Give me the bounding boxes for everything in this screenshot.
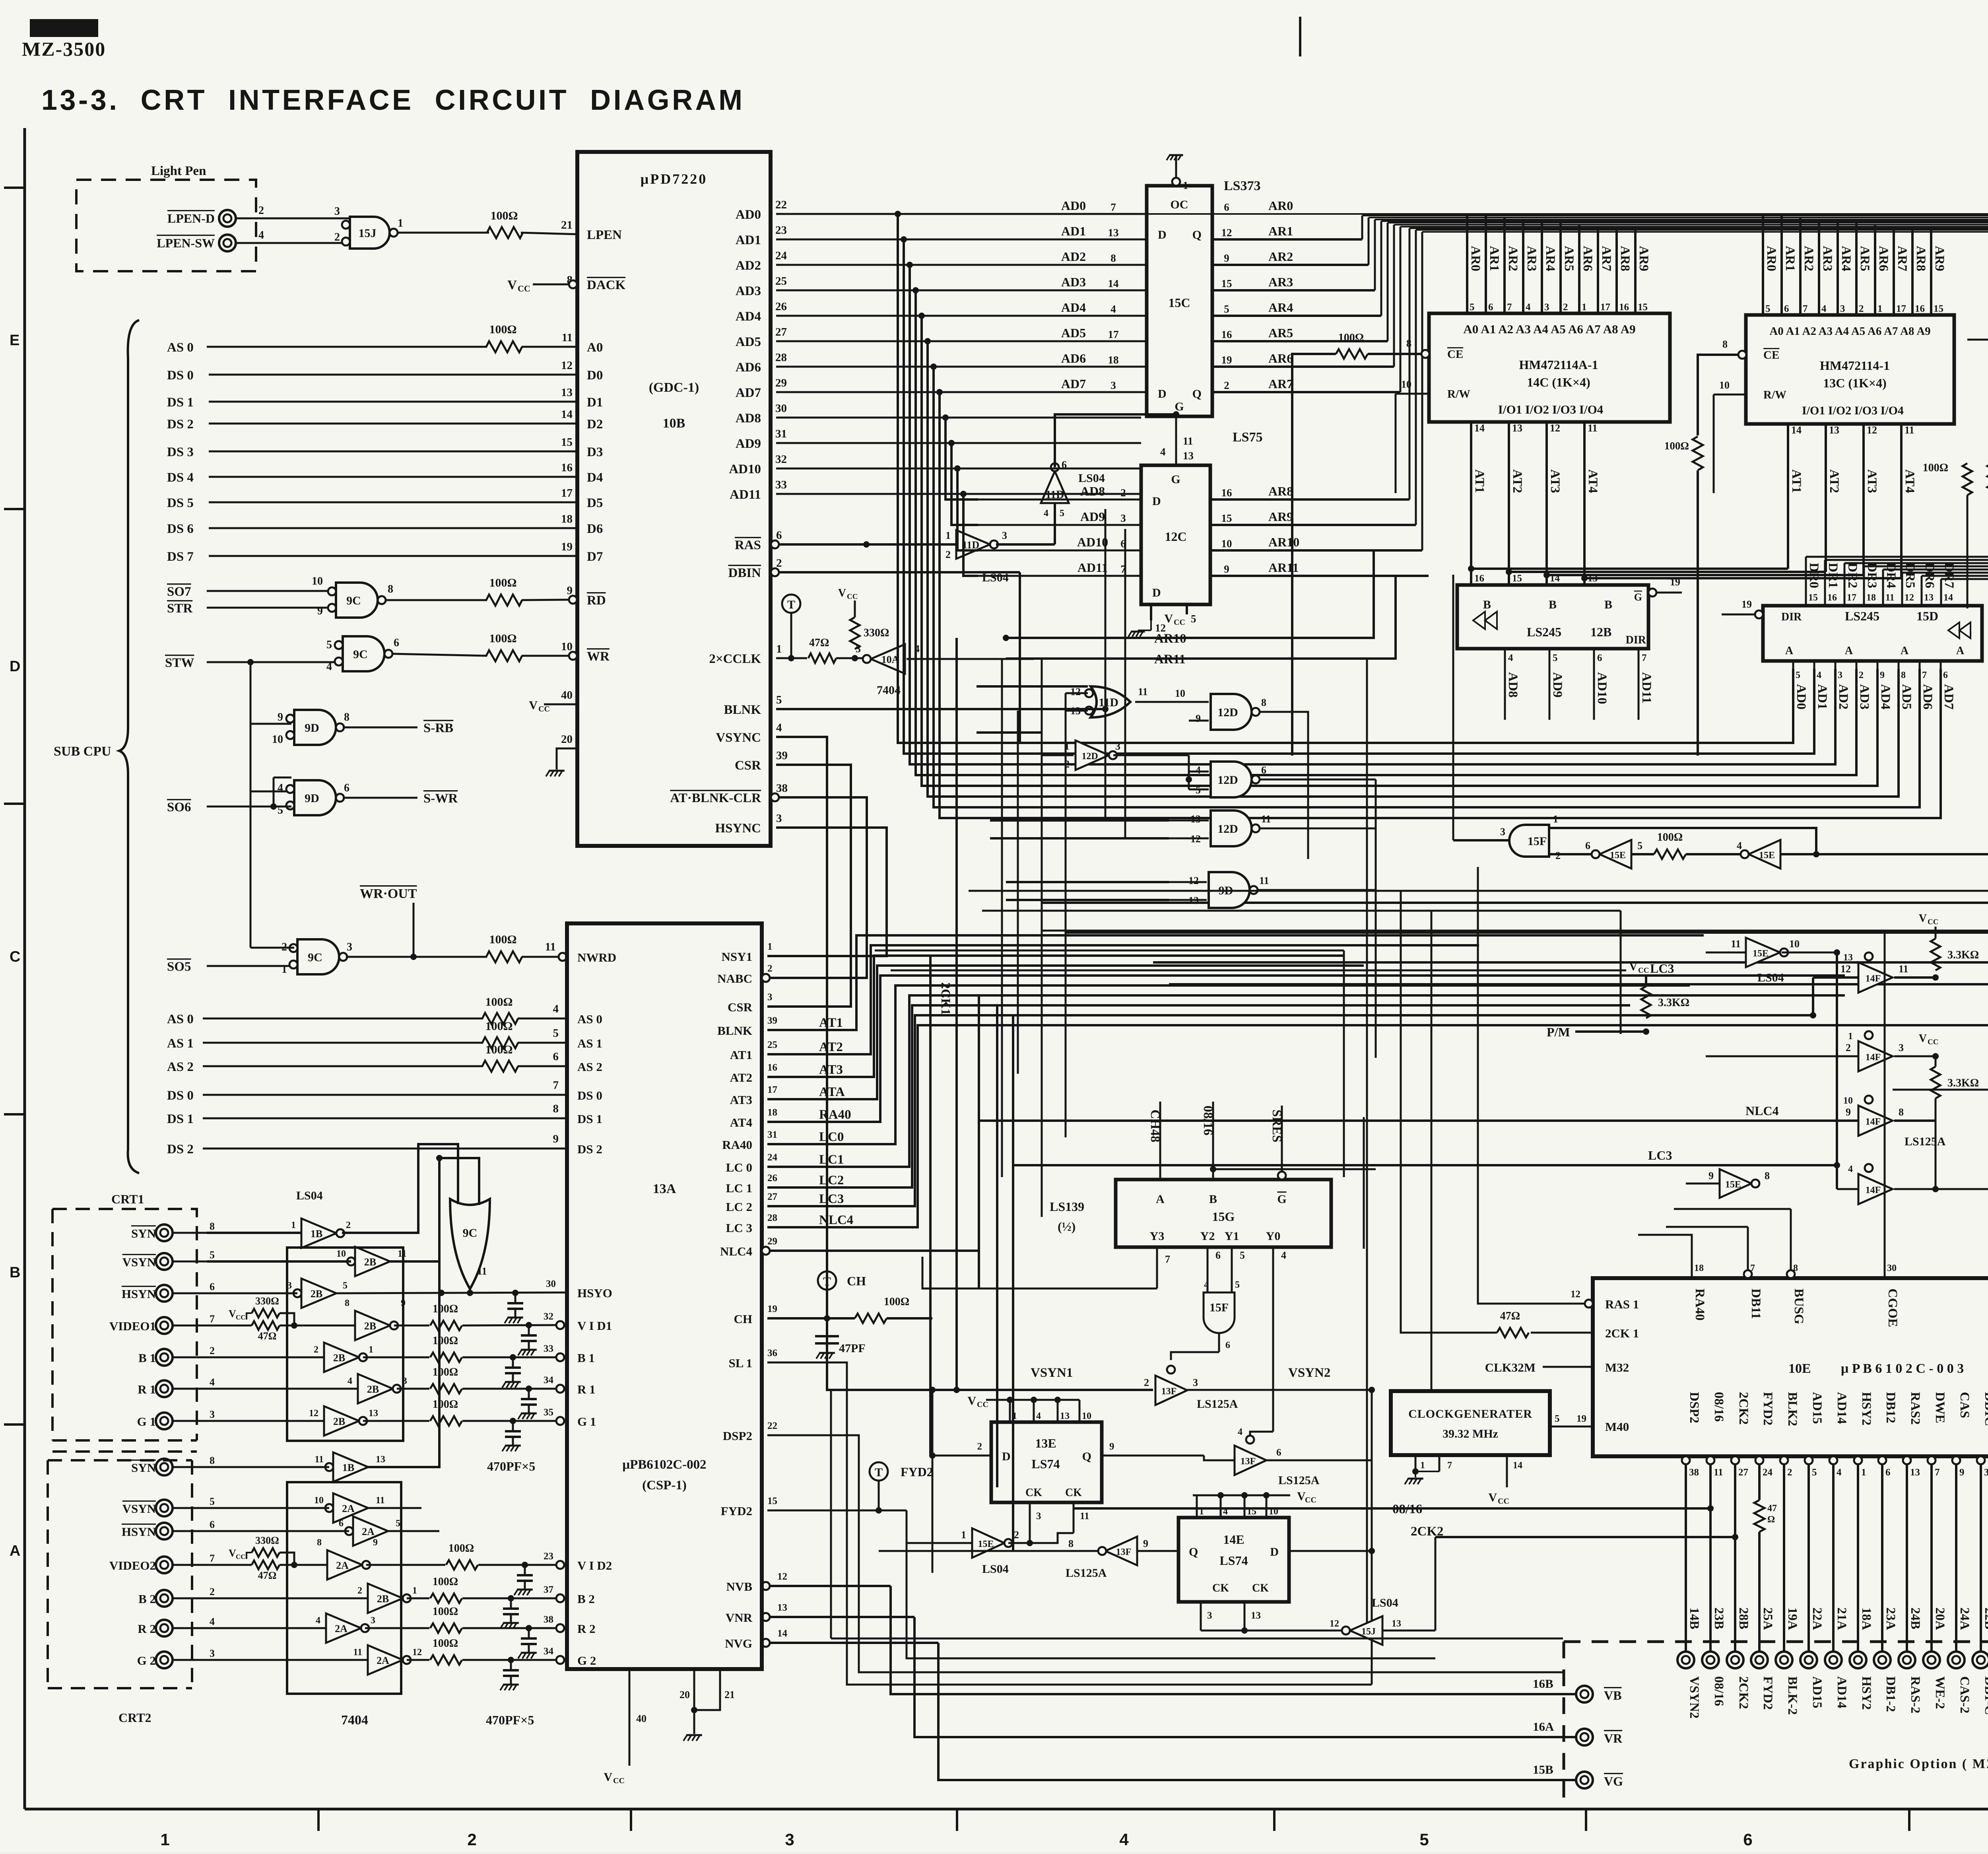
wire CSR to CSR xyxy=(767,765,851,1007)
svg-text:6: 6 xyxy=(339,1518,344,1529)
svg-text:2: 2 xyxy=(945,549,951,560)
svg-text:B 1: B 1 xyxy=(577,1351,595,1365)
svg-text:14: 14 xyxy=(1550,573,1560,584)
svg-text:OC: OC xyxy=(1171,198,1188,211)
svg-text:100Ω: 100Ω xyxy=(1338,332,1364,344)
svg-text:Y0: Y0 xyxy=(1266,1230,1281,1243)
svg-text:AS 2: AS 2 xyxy=(577,1060,602,1074)
wire mesh verticals right xyxy=(1343,950,1345,1177)
svg-text:15: 15 xyxy=(1512,573,1522,584)
wire RAS right xyxy=(779,543,956,546)
svg-text:AT2: AT2 xyxy=(819,1040,843,1054)
svg-text:10: 10 xyxy=(1221,538,1232,550)
svg-text:AD11: AD11 xyxy=(1077,560,1108,575)
wire 12D#2 output xyxy=(1260,779,1376,781)
svg-text:330Ω: 330Ω xyxy=(255,1535,279,1546)
svg-text:μ P B 6 1 0 2 C ‑ 0 0 3: μ P B 6 1 0 2 C ‑ 0 0 3 xyxy=(1841,1361,1964,1376)
svg-text:AS 0: AS 0 xyxy=(167,1012,194,1026)
svg-text:HM472114‑1: HM472114‑1 xyxy=(1820,358,1890,373)
svg-text:V I D2: V I D2 xyxy=(577,1559,612,1572)
wire 15F out to 13F#1 xyxy=(1171,1352,1219,1360)
svg-text:B 2: B 2 xyxy=(138,1592,156,1606)
svg-text:11: 11 xyxy=(545,941,556,953)
wire 15F to 15E inverter xyxy=(1549,853,1596,855)
wire bundle DR0-DR7 above 15D xyxy=(1805,557,1807,606)
svg-text:1B: 1B xyxy=(311,1228,322,1240)
gate 9D NAND #2 xyxy=(294,780,336,815)
svg-text:A: A xyxy=(1785,645,1794,657)
svg-text:T: T xyxy=(823,1275,831,1288)
svg-text:D: D xyxy=(1158,387,1167,400)
svg-text:DR5: DR5 xyxy=(1903,563,1917,588)
svg-text:2B: 2B xyxy=(333,1352,345,1364)
wire mesh verticals below xyxy=(929,956,932,1456)
svg-text:LS125A: LS125A xyxy=(1066,1566,1107,1580)
svg-text:Y1: Y1 xyxy=(1225,1230,1239,1243)
svg-text:9: 9 xyxy=(278,711,283,723)
svg-text:AT2: AT2 xyxy=(1510,469,1524,493)
svg-text:12: 12 xyxy=(1905,593,1914,603)
svg-text:6: 6 xyxy=(1276,1447,1281,1458)
svg-text:VSYN2: VSYN2 xyxy=(1687,1676,1701,1718)
svg-text:A: A xyxy=(1845,645,1853,657)
svg-text:11: 11 xyxy=(1138,686,1148,698)
svg-text:2×CCLK: 2×CCLK xyxy=(709,652,761,666)
svg-text:AR4: AR4 xyxy=(1543,246,1557,271)
13E D input wire xyxy=(932,1455,991,1457)
svg-text:7: 7 xyxy=(1110,201,1116,213)
svg-text:AD11: AD11 xyxy=(730,488,761,502)
svg-text:HM472114A‑1: HM472114A‑1 xyxy=(1519,358,1598,372)
svg-text:4: 4 xyxy=(1204,1280,1209,1290)
svg-text:15E: 15E xyxy=(1725,1180,1741,1190)
svg-text:HSYN: HSYN xyxy=(122,1525,156,1539)
svg-text:16: 16 xyxy=(1474,573,1484,584)
svg-text:RA40: RA40 xyxy=(819,1108,851,1122)
svg-text:14: 14 xyxy=(561,408,573,421)
svg-text:BUSG: BUSG xyxy=(1792,1288,1806,1324)
svg-text:BLNK: BLNK xyxy=(724,703,761,717)
gate 15E inverter #3 (LS04) xyxy=(1746,938,1780,967)
svg-text:24: 24 xyxy=(767,1152,778,1163)
svg-text:RA40: RA40 xyxy=(1693,1288,1707,1321)
svg-text:V: V xyxy=(604,1770,612,1784)
connector LPEN-D xyxy=(219,210,236,227)
svg-text:11: 11 xyxy=(1731,938,1741,950)
svg-text:AR10: AR10 xyxy=(1268,535,1299,549)
svg-text:2: 2 xyxy=(210,1586,215,1597)
svg-text:23: 23 xyxy=(775,224,787,237)
wire inverter up to LS75 gate line xyxy=(1055,414,1176,467)
svg-text:AD9: AD9 xyxy=(736,437,761,451)
gate 11D inverter (LS04) xyxy=(956,530,990,559)
svg-text:7: 7 xyxy=(553,1079,559,1092)
svg-text:10B: 10B xyxy=(663,416,685,431)
svg-text:7: 7 xyxy=(1922,670,1927,680)
wire NVG to VG xyxy=(762,1639,770,1647)
wire AR8-AR11 rows from 12C with risers xyxy=(1210,498,1409,501)
svg-text:6: 6 xyxy=(553,1050,559,1063)
svg-text:10: 10 xyxy=(1401,379,1411,390)
gate 9C OR4 vertical xyxy=(450,1199,490,1289)
svg-text:8: 8 xyxy=(345,1298,349,1308)
svg-text:6: 6 xyxy=(1585,840,1590,851)
svg-text:11: 11 xyxy=(1259,875,1269,886)
svg-text:A: A xyxy=(10,1543,20,1559)
svg-text:27: 27 xyxy=(1738,1467,1748,1478)
svg-text:G 1: G 1 xyxy=(137,1415,156,1428)
svg-text:11: 11 xyxy=(1080,1511,1089,1522)
svg-text:20: 20 xyxy=(561,733,573,746)
svg-text:AR7: AR7 xyxy=(1599,246,1613,271)
svg-text:T: T xyxy=(787,598,795,611)
svg-text:2B: 2B xyxy=(367,1384,379,1395)
svg-text:AD2: AD2 xyxy=(1836,684,1850,709)
svg-text:15: 15 xyxy=(1638,302,1648,313)
svg-text:FYD2: FYD2 xyxy=(721,1504,752,1518)
svg-text:AD10: AD10 xyxy=(1595,672,1609,704)
svg-text:7: 7 xyxy=(1935,1467,1940,1478)
IC 14E LS74 box xyxy=(1178,1518,1289,1602)
svg-text:AR7: AR7 xyxy=(1268,377,1293,391)
svg-text:10: 10 xyxy=(336,1249,346,1259)
gate 12D inverter xyxy=(1076,740,1109,770)
CSP-1 bottom pins xyxy=(629,1669,631,1766)
svg-text:2: 2 xyxy=(1144,1377,1149,1388)
svg-text:VSYN: VSYN xyxy=(122,1502,156,1516)
svg-text:AR1: AR1 xyxy=(1268,224,1293,238)
svg-text:2A: 2A xyxy=(362,1526,375,1537)
svg-text:3: 3 xyxy=(210,1648,215,1659)
gate 15E inverter #5 (LS04) xyxy=(972,1528,1004,1558)
svg-text:100Ω: 100Ω xyxy=(489,933,516,946)
svg-text:AR8: AR8 xyxy=(1914,246,1928,271)
svg-text:10: 10 xyxy=(1789,938,1800,950)
svg-text:14E: 14E xyxy=(1223,1532,1244,1547)
gate 15J NAND light pen xyxy=(350,217,390,249)
svg-text:AD0: AD0 xyxy=(736,208,761,222)
svg-text:11: 11 xyxy=(353,1647,362,1658)
svg-text:2: 2 xyxy=(258,204,264,217)
svg-text:8: 8 xyxy=(317,1537,322,1548)
svg-text:6: 6 xyxy=(1784,303,1789,314)
wire bundle AT1-AT4 below 14C to 12B and 13C xyxy=(1470,422,1472,585)
svg-text:DS 0: DS 0 xyxy=(167,1088,194,1103)
svg-text:36: 36 xyxy=(767,1348,777,1358)
svg-text:16: 16 xyxy=(561,461,573,474)
svg-text:8: 8 xyxy=(1406,338,1411,349)
svg-text:38: 38 xyxy=(1689,1467,1699,1478)
svg-text:LPEN‑SW: LPEN‑SW xyxy=(157,236,215,250)
svg-text:15E: 15E xyxy=(978,1539,994,1549)
svg-text:I/O1 I/O2 I/O3 I/O4: I/O1 I/O2 I/O3 I/O4 xyxy=(1498,402,1603,416)
gate 13F buffer #3 (LS125A) pointing left xyxy=(1105,1537,1137,1565)
svg-text:11: 11 xyxy=(1714,1467,1723,1478)
wire DBIN right xyxy=(779,571,1020,573)
svg-text:14F: 14F xyxy=(1866,1117,1881,1127)
IC 13C HM472114-1 box xyxy=(1746,315,1954,424)
svg-text:AD8: AD8 xyxy=(736,411,761,426)
svg-text:30: 30 xyxy=(775,402,787,415)
svg-text:DS 1: DS 1 xyxy=(167,395,194,410)
svg-text:22: 22 xyxy=(775,198,787,211)
svg-text:9: 9 xyxy=(553,1133,559,1145)
svg-text:19: 19 xyxy=(767,1304,777,1314)
svg-text:14F: 14F xyxy=(1866,1185,1881,1195)
svg-text:3: 3 xyxy=(1840,303,1845,314)
svg-text:33: 33 xyxy=(544,1343,553,1354)
svg-text:(GDC-1): (GDC-1) xyxy=(649,380,699,395)
wire NLC4 pin29 east xyxy=(770,1121,979,1251)
svg-text:DS 7: DS 7 xyxy=(167,550,194,564)
svg-text:39: 39 xyxy=(776,749,788,762)
svg-text:D: D xyxy=(1002,1450,1011,1463)
svg-text:9: 9 xyxy=(1708,1170,1714,1182)
svg-text:CK: CK xyxy=(1212,1582,1229,1594)
svg-text:LS125A: LS125A xyxy=(1905,1135,1946,1148)
resistor 47ohm VIDEO2 xyxy=(252,1561,280,1569)
svg-text:Y2: Y2 xyxy=(1200,1230,1215,1243)
svg-text:CLOCKGENERATER: CLOCKGENERATER xyxy=(1408,1407,1532,1421)
svg-text:11: 11 xyxy=(376,1495,385,1506)
svg-text:DS 6: DS 6 xyxy=(167,522,194,536)
svg-text:13: 13 xyxy=(1829,424,1839,436)
gate 2B inverter #2 xyxy=(301,1279,336,1308)
svg-text:13: 13 xyxy=(1183,450,1194,462)
svg-text:AD8: AD8 xyxy=(1506,672,1520,698)
svg-text:4: 4 xyxy=(210,1376,215,1388)
IC 15D LS245 box xyxy=(1763,606,1982,661)
svg-text:5: 5 xyxy=(776,694,782,706)
svg-text:LS373: LS373 xyxy=(1224,179,1261,193)
svg-text:16: 16 xyxy=(767,1062,777,1073)
svg-text:G: G xyxy=(1634,591,1642,603)
svg-text:2CK2: 2CK2 xyxy=(1736,1392,1751,1425)
svg-text:AD5: AD5 xyxy=(736,335,761,349)
CRT2 dashed enclosure xyxy=(48,1460,192,1688)
svg-text:2: 2 xyxy=(977,1441,982,1452)
gate 14F buffer #4 xyxy=(1858,1174,1893,1204)
svg-text:DIR: DIR xyxy=(1781,611,1802,623)
svg-text:D2: D2 xyxy=(587,417,603,431)
svg-text:15: 15 xyxy=(1221,512,1232,524)
svg-text:AR4: AR4 xyxy=(1839,246,1853,271)
svg-text:6: 6 xyxy=(1261,764,1266,776)
svg-text:12: 12 xyxy=(1070,686,1081,698)
svg-text:2: 2 xyxy=(1555,850,1561,861)
svg-text:35: 35 xyxy=(544,1407,553,1418)
svg-text:2: 2 xyxy=(346,1220,351,1230)
14C CE pin with resistor xyxy=(1421,350,1429,358)
svg-text:3: 3 xyxy=(1544,302,1549,313)
svg-text:AR0: AR0 xyxy=(1268,198,1293,213)
svg-text:3: 3 xyxy=(334,205,340,218)
svg-text:34: 34 xyxy=(544,1375,554,1386)
svg-text:ATA: ATA xyxy=(819,1085,845,1099)
svg-text:12: 12 xyxy=(309,1408,318,1419)
svg-text:6: 6 xyxy=(1224,201,1229,213)
svg-text:5: 5 xyxy=(1470,302,1475,313)
wire mesh verticals left xyxy=(1001,659,1003,1177)
svg-text:4: 4 xyxy=(1281,1250,1286,1261)
resistor 3.3K pullup #1 xyxy=(1931,939,1940,970)
svg-text:10E: 10E xyxy=(1788,1361,1811,1376)
svg-text:3: 3 xyxy=(1500,826,1505,838)
svg-text:11: 11 xyxy=(1261,813,1271,825)
gate 14F buffer #2 xyxy=(1858,1041,1893,1071)
14C R/W pin xyxy=(1396,393,1429,395)
svg-text:AD2: AD2 xyxy=(736,258,761,273)
svg-text:14: 14 xyxy=(1108,278,1119,290)
svg-text:RD: RD xyxy=(587,593,606,608)
svg-text:10: 10 xyxy=(1175,688,1185,699)
svg-text:3: 3 xyxy=(1120,512,1126,524)
svg-text:5: 5 xyxy=(1419,1830,1429,1849)
svg-text:D: D xyxy=(1270,1545,1279,1559)
wire S-RB xyxy=(343,727,417,729)
svg-text:Q: Q xyxy=(1189,1545,1198,1559)
svg-text:AD10: AD10 xyxy=(1077,535,1108,549)
svg-text:18: 18 xyxy=(767,1107,777,1118)
svg-text:AR6: AR6 xyxy=(1580,246,1595,271)
svg-text:G 2: G 2 xyxy=(137,1654,156,1667)
svg-text:CK: CK xyxy=(1065,1487,1082,1499)
svg-text:DS 3: DS 3 xyxy=(167,445,194,459)
svg-text:1: 1 xyxy=(1861,1467,1866,1478)
svg-text:330Ω: 330Ω xyxy=(255,1295,279,1307)
svg-text:CK: CK xyxy=(1025,1487,1042,1499)
svg-text:LS245: LS245 xyxy=(1527,625,1561,639)
svg-text:AR9: AR9 xyxy=(1637,246,1651,271)
13C R/W pin xyxy=(1714,394,1746,396)
svg-text:SO6: SO6 xyxy=(167,800,191,814)
svg-text:21A: 21A xyxy=(1835,1607,1849,1630)
svg-text:FYD2: FYD2 xyxy=(901,1465,933,1479)
svg-text:AR3: AR3 xyxy=(1268,275,1293,289)
svg-text:DR1: DR1 xyxy=(1826,563,1840,588)
14E Q output to 13F#3 xyxy=(1137,1550,1178,1552)
connector G1 + buffer 2B xyxy=(156,1413,173,1429)
svg-text:08/16: 08/16 xyxy=(1712,1676,1726,1706)
IC 10E uPB6102C-003 CSP-2 box xyxy=(1593,1278,1988,1456)
svg-text:15: 15 xyxy=(561,436,573,449)
svg-text:16: 16 xyxy=(1619,302,1629,313)
svg-text:AT3: AT3 xyxy=(1548,469,1562,493)
svg-text:V: V xyxy=(967,1394,976,1407)
svg-text:1: 1 xyxy=(282,963,287,976)
pin bubble RD xyxy=(569,596,577,604)
svg-text:13: 13 xyxy=(1190,813,1201,825)
svg-text:LC 1: LC 1 xyxy=(726,1181,752,1195)
svg-text:47: 47 xyxy=(1767,1503,1777,1514)
svg-text:AR4: AR4 xyxy=(1268,300,1293,315)
svg-text:CC: CC xyxy=(977,1400,988,1409)
svg-text:9C: 9C xyxy=(346,594,361,607)
svg-text:AD7: AD7 xyxy=(1061,377,1086,391)
wire LPEN-D to gate xyxy=(236,218,349,220)
Graphic Option dashed enclosure xyxy=(1564,1642,1988,1805)
svg-text:20A: 20A xyxy=(1933,1607,1947,1630)
svg-text:100Ω: 100Ω xyxy=(433,1366,458,1378)
14E bottom pins xyxy=(1200,1602,1202,1631)
wire mesh extra horizontals xyxy=(977,685,1088,688)
svg-text:B: B xyxy=(1209,1193,1217,1206)
svg-text:VG: VG xyxy=(1604,1774,1623,1788)
12B G pin xyxy=(1648,589,1656,597)
svg-text:G 1: G 1 xyxy=(577,1415,596,1428)
svg-text:9: 9 xyxy=(1846,1106,1851,1118)
wire 2CK1 vertical xyxy=(955,638,958,1390)
svg-text:V I D1: V I D1 xyxy=(577,1319,612,1333)
svg-text:NWRD: NWRD xyxy=(577,950,616,964)
svg-text:V: V xyxy=(1919,912,1927,925)
svg-text:AR6: AR6 xyxy=(1268,351,1293,365)
svg-text:DB11: DB11 xyxy=(1749,1288,1763,1319)
svg-text:3: 3 xyxy=(1115,740,1120,752)
pin bubble DBIN xyxy=(771,568,779,576)
svg-text:B: B xyxy=(1549,598,1557,611)
gate 11D inverter vertical (LS04) xyxy=(1041,471,1069,503)
svg-text:4: 4 xyxy=(1044,508,1048,519)
svg-text:13E: 13E xyxy=(1035,1436,1056,1450)
svg-text:DR2: DR2 xyxy=(1845,563,1860,588)
svg-text:2: 2 xyxy=(334,231,340,243)
svg-text:8: 8 xyxy=(388,583,393,595)
svg-text:3: 3 xyxy=(210,1409,215,1420)
svg-text:VSYNC: VSYNC xyxy=(716,731,761,745)
svg-text:DS 1: DS 1 xyxy=(167,1112,194,1126)
svg-text:CLK32M: CLK32M xyxy=(1485,1360,1536,1374)
wire VID1 with 100ohm and cap xyxy=(394,1325,429,1327)
svg-text:38: 38 xyxy=(776,782,788,795)
svg-text:(CSP‑1): (CSP‑1) xyxy=(642,1478,687,1493)
svg-text:D7: D7 xyxy=(587,550,603,564)
svg-text:SYN: SYN xyxy=(131,1461,156,1475)
svg-text:14: 14 xyxy=(1943,593,1953,603)
svg-text:LC3: LC3 xyxy=(1650,961,1674,976)
svg-text:R 1: R 1 xyxy=(138,1382,156,1396)
gate 13F buffer #1 (LS125A) xyxy=(1155,1376,1187,1405)
svg-text:AD5: AD5 xyxy=(1061,326,1086,340)
svg-text:CRT1: CRT1 xyxy=(111,1192,144,1206)
wire CH east xyxy=(932,1318,933,1390)
wire 2CK2 horizontal xyxy=(1435,1536,1735,1538)
wire mesh long horizontals band xyxy=(969,890,1988,892)
svg-text:14F: 14F xyxy=(1866,974,1881,984)
svg-text:30: 30 xyxy=(546,1279,556,1289)
svg-text:CRT2: CRT2 xyxy=(118,1710,151,1725)
svg-text:1: 1 xyxy=(160,1830,169,1849)
svg-text:DB1‑C: DB1‑C xyxy=(1982,1676,1988,1715)
svg-text:10: 10 xyxy=(1719,379,1730,391)
svg-text:LC3: LC3 xyxy=(1648,1148,1672,1162)
svg-text:14: 14 xyxy=(777,1628,788,1639)
IC U10B uPD7220 GDC-1 box xyxy=(577,152,771,846)
12C bottom pins vcc/gnd xyxy=(1150,604,1152,620)
svg-text:12D: 12D xyxy=(1217,822,1238,836)
gate 14F buffer #1 xyxy=(1858,962,1893,993)
svg-text:5: 5 xyxy=(1812,1467,1817,1478)
svg-text:11: 11 xyxy=(1905,424,1914,436)
svg-text:CC: CC xyxy=(538,705,550,713)
svg-text:AS 1: AS 1 xyxy=(577,1036,602,1050)
svg-text:NLC4: NLC4 xyxy=(720,1244,752,1258)
svg-text:19: 19 xyxy=(561,540,573,553)
svg-text:08/16: 08/16 xyxy=(1201,1106,1215,1135)
svg-text:AR7: AR7 xyxy=(1895,246,1909,271)
svg-text:16: 16 xyxy=(1221,487,1232,499)
svg-text:40: 40 xyxy=(561,689,573,702)
